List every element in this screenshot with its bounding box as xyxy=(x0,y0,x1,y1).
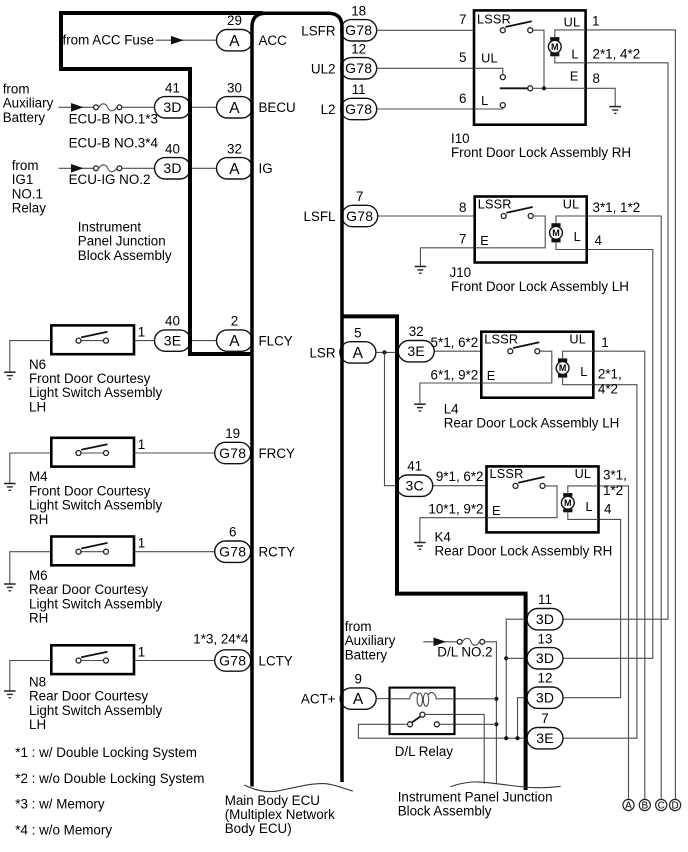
label I10 xyxy=(451,131,631,160)
D/L relay xyxy=(390,688,455,735)
svg-text:Rear Door Lock Assembly LH: Rear Door Lock Assembly LH xyxy=(444,416,620,431)
wire K4 E to ground xyxy=(420,518,487,543)
svg-text:N8: N8 xyxy=(29,674,46,689)
label L4 xyxy=(444,402,620,431)
svg-text:LSSR: LSSR xyxy=(478,197,512,211)
svg-text:5*1, 6*2: 5*1, 6*2 xyxy=(431,335,479,350)
svg-text:7: 7 xyxy=(459,12,466,27)
svg-text:FLCY: FLCY xyxy=(259,334,293,349)
svg-text:10*1, 9*2: 10*1, 9*2 xyxy=(428,502,483,517)
pin number pin 11 xyxy=(352,82,366,97)
svg-text:A: A xyxy=(353,691,364,708)
wire I10 UL pin1 to connector D xyxy=(586,30,676,799)
svg-text:*3 : w/ Memory: *3 : w/ Memory xyxy=(15,797,105,812)
svg-text:4*2: 4*2 xyxy=(598,382,618,397)
L4 pin labels right xyxy=(598,335,622,397)
svg-text:Battery: Battery xyxy=(345,647,388,662)
svg-text:(Multiplex Network: (Multiplex Network xyxy=(225,807,335,822)
svg-text:Light Switch Assembly: Light Switch Assembly xyxy=(29,498,163,513)
svg-text:A: A xyxy=(353,345,364,362)
svg-text:ECU-IG NO.2: ECU-IG NO.2 xyxy=(69,172,151,187)
pin number pin 41 xyxy=(165,80,180,95)
svg-text:Front Door Courtesy: Front Door Courtesy xyxy=(29,483,151,498)
svg-text:N6: N6 xyxy=(29,357,46,372)
off-page connector C xyxy=(656,799,667,811)
svg-text:LSSR: LSSR xyxy=(484,333,518,347)
svg-text:L2: L2 xyxy=(321,102,336,117)
svg-text:40: 40 xyxy=(165,314,180,329)
pin number pin 13 3D xyxy=(538,631,553,646)
label 1*3 24*4 xyxy=(193,632,249,647)
svg-text:9: 9 xyxy=(354,672,361,687)
label D/L Relay xyxy=(395,744,454,759)
L4 pin labels left xyxy=(431,335,479,383)
wire relay coil to feed xyxy=(455,698,497,700)
label Instrument Panel Junction Block Assembly (right) xyxy=(398,789,553,818)
pin number pin 40 FLCY xyxy=(165,314,180,329)
front door courtesy switch N6 xyxy=(51,325,134,354)
footnote *4 xyxy=(15,822,112,837)
connector G78 pin 12 (UL2) xyxy=(341,58,377,79)
svg-text:18: 18 xyxy=(351,3,366,18)
svg-text:D/L NO.2: D/L NO.2 xyxy=(437,644,492,659)
svg-text:29: 29 xyxy=(227,13,242,28)
connector A pin 30 (BECU) xyxy=(217,97,253,118)
svg-text:7: 7 xyxy=(459,231,466,246)
svg-text:3D: 3D xyxy=(163,99,181,115)
svg-text:3D: 3D xyxy=(536,611,554,627)
svg-text:3E: 3E xyxy=(164,333,182,349)
svg-text:G78: G78 xyxy=(345,60,372,76)
svg-text:UL: UL xyxy=(564,16,581,30)
svg-text:LCTY: LCTY xyxy=(259,654,293,669)
label M6 xyxy=(29,568,163,626)
wire 3C41 to K4 switch xyxy=(433,485,487,487)
svg-text:IG: IG xyxy=(259,161,273,176)
svg-text:Front Door Courtesy: Front Door Courtesy xyxy=(29,371,151,386)
pin number pin 18 xyxy=(351,3,366,18)
svg-text:Front Door Lock Assembly LH: Front Door Lock Assembly LH xyxy=(451,279,629,294)
svg-text:2*1,: 2*1, xyxy=(598,367,622,382)
svg-text:Light Switch Assembly: Light Switch Assembly xyxy=(29,385,163,400)
svg-text:1*3, 24*4: 1*3, 24*4 xyxy=(193,632,249,647)
Main Body ECU outline xyxy=(252,13,342,786)
svg-text:12: 12 xyxy=(351,41,366,56)
svg-text:LSSR: LSSR xyxy=(477,13,511,27)
pin number pin 12 3D xyxy=(538,671,553,686)
pin number pin 29 xyxy=(227,13,242,28)
wire 3D40 to pin 32 xyxy=(191,167,217,169)
svg-text:*2 : w/o Double Locking System: *2 : w/o Double Locking System xyxy=(15,771,204,786)
rear door courtesy switch M6 xyxy=(51,537,134,566)
connector G78 pin 11 (L2) xyxy=(341,98,377,119)
pin number pin 19 xyxy=(225,426,240,441)
label ECU-B NO.1*3 xyxy=(69,111,158,126)
svg-text:Instrument Panel Junction: Instrument Panel Junction xyxy=(398,789,553,804)
svg-text:Light Switch Assembly: Light Switch Assembly xyxy=(29,703,163,718)
svg-text:11: 11 xyxy=(538,592,552,607)
svg-text:LSFR: LSFR xyxy=(301,23,336,38)
Instrument Panel Junction Block Assembly outline (left) xyxy=(59,13,263,354)
svg-text:from: from xyxy=(345,619,372,634)
wire relay NC contact to 3E7 net xyxy=(358,724,525,738)
fuse ECU-B NO.1 with feed wire xyxy=(59,103,155,112)
wire L4 UL to connector B xyxy=(593,351,645,799)
off-page connector D xyxy=(670,799,681,811)
svg-text:4: 4 xyxy=(604,502,612,517)
off-page connector B xyxy=(639,799,650,811)
svg-text:Block Assembly: Block Assembly xyxy=(78,248,172,263)
svg-text:L: L xyxy=(585,500,592,514)
connector 3E pin 32 xyxy=(398,341,434,362)
ground K4 xyxy=(414,543,426,550)
svg-text:*4 : w/o Memory: *4 : w/o Memory xyxy=(15,822,112,837)
node 3D12 to 3E7 row xyxy=(515,736,519,740)
pin number pin 12 xyxy=(351,41,366,56)
svg-text:8: 8 xyxy=(593,71,600,86)
svg-text:9*1, 6*2: 9*1, 6*2 xyxy=(436,469,484,484)
svg-text:12: 12 xyxy=(538,671,553,686)
svg-text:3D: 3D xyxy=(163,160,181,176)
label from IG1 NO.1 Relay xyxy=(12,158,47,216)
rear door lock assembly RH K4 xyxy=(487,466,599,532)
svg-text:ACC: ACC xyxy=(259,33,288,48)
connector A pin 32 (IG) xyxy=(217,158,253,179)
svg-text:Rear Door Courtesy: Rear Door Courtesy xyxy=(29,689,148,704)
svg-text:G78: G78 xyxy=(345,22,372,38)
svg-text:UL: UL xyxy=(569,333,586,347)
connector 3D pin 13 xyxy=(527,648,563,669)
svg-text:32: 32 xyxy=(409,324,424,339)
wire D/L NO.2 to relay feed xyxy=(485,642,497,784)
svg-text:Battery: Battery xyxy=(3,110,46,125)
svg-text:from ACC Fuse: from ACC Fuse xyxy=(63,33,155,48)
svg-text:ECU-B NO.3*4: ECU-B NO.3*4 xyxy=(69,136,159,151)
svg-text:UL: UL xyxy=(563,197,580,211)
svg-text:3*1, 1*2: 3*1, 1*2 xyxy=(593,200,641,215)
svg-text:A: A xyxy=(229,161,240,178)
svg-text:1: 1 xyxy=(138,437,145,452)
svg-text:32: 32 xyxy=(227,141,242,156)
wire A9 to relay coil xyxy=(376,698,389,700)
J10 pin labels left xyxy=(459,200,466,247)
svg-text:Light Switch Assembly: Light Switch Assembly xyxy=(29,596,163,611)
wire K4 L to 3D12 xyxy=(561,519,620,697)
ground I10 xyxy=(609,107,621,114)
connector 3D pin 11 xyxy=(527,609,563,630)
svg-text:6: 6 xyxy=(459,91,466,106)
label ECU-IG NO.2 xyxy=(69,172,151,187)
svg-text:Block Assembly: Block Assembly xyxy=(398,803,492,818)
wire M6 to pin 6 xyxy=(134,551,217,553)
svg-text:L: L xyxy=(481,94,488,108)
I10 pin labels left xyxy=(459,12,466,106)
front door courtesy switch M4 xyxy=(51,438,134,467)
svg-text:3E: 3E xyxy=(407,343,425,359)
svg-text:1: 1 xyxy=(592,13,599,28)
svg-text:M: M xyxy=(551,42,559,52)
connector 3C pin 41 xyxy=(397,475,433,496)
svg-text:A: A xyxy=(625,801,632,812)
wire I10 L pin to 3D11 xyxy=(561,63,668,619)
wire G78-18 to I10 pin 7 xyxy=(377,29,474,31)
svg-text:Auxiliary: Auxiliary xyxy=(3,96,54,111)
svg-text:Body ECU): Body ECU) xyxy=(225,821,292,836)
svg-text:8: 8 xyxy=(459,200,466,215)
svg-text:L: L xyxy=(580,365,587,379)
svg-text:4: 4 xyxy=(595,233,603,248)
svg-text:G78: G78 xyxy=(345,101,372,117)
svg-text:5: 5 xyxy=(354,325,361,340)
wire N6 to 3E40 xyxy=(134,340,155,342)
label M4 xyxy=(29,469,163,527)
svg-text:13: 13 xyxy=(538,631,553,646)
ground L4 xyxy=(414,404,426,411)
svg-text:G78: G78 xyxy=(346,208,373,224)
node bus to 3E7 row xyxy=(504,736,508,740)
ground N8 xyxy=(4,691,16,698)
connector G78 pin 6 (RCTY) xyxy=(215,541,251,562)
svg-text:11: 11 xyxy=(352,82,366,97)
rear door lock assembly LH L4 xyxy=(481,332,593,398)
wire J10 E pin7 to ground xyxy=(420,248,474,267)
wire M4 to pin 19 xyxy=(134,452,217,454)
wire M4 to ground xyxy=(10,453,52,484)
svg-text:41: 41 xyxy=(165,80,180,95)
svg-text:LH: LH xyxy=(29,399,46,414)
svg-text:3D: 3D xyxy=(536,650,554,666)
wire 3D12 to 3E7 net xyxy=(518,698,526,739)
svg-text:Instrument: Instrument xyxy=(78,220,142,235)
svg-text:3E: 3E xyxy=(536,730,554,746)
svg-text:41: 41 xyxy=(407,459,422,474)
svg-text:G78: G78 xyxy=(219,544,246,560)
wire J10 L to 3D13 xyxy=(561,250,652,659)
svg-text:RH: RH xyxy=(29,611,48,626)
svg-text:19: 19 xyxy=(225,426,240,441)
svg-text:UL2: UL2 xyxy=(311,61,336,76)
wire relay NO contact to feed xyxy=(455,723,497,725)
I10 pin labels right xyxy=(592,13,640,85)
svg-text:UL: UL xyxy=(575,467,592,481)
svg-text:Panel Junction: Panel Junction xyxy=(78,234,166,249)
svg-text:IG1: IG1 xyxy=(12,172,34,187)
pin number pin 9 xyxy=(354,672,361,687)
svg-text:from: from xyxy=(12,158,39,173)
label ECU-B NO.3*4 xyxy=(69,136,159,151)
Main Body ECU pin labels xyxy=(259,23,336,706)
svg-text:30: 30 xyxy=(227,80,242,95)
pin 1 label N6 xyxy=(138,324,145,339)
svg-text:ECU-B NO.1*3: ECU-B NO.1*3 xyxy=(69,111,158,126)
wire LSR branch down to 3C41 xyxy=(385,352,398,485)
wire N6 to ground xyxy=(10,341,52,373)
connector 3E pin 40 xyxy=(155,330,191,351)
svg-text:LSSR: LSSR xyxy=(490,467,524,481)
pin number pin 7 LSFL xyxy=(356,189,363,204)
pin 1 label M4 xyxy=(138,437,145,452)
svg-text:J10: J10 xyxy=(450,265,472,280)
label K4 xyxy=(435,530,613,559)
label N8 xyxy=(29,674,163,732)
svg-text:BECU: BECU xyxy=(259,100,296,115)
pin number pin 5 xyxy=(354,325,361,340)
svg-text:M: M xyxy=(564,498,572,508)
pin number pin 32 xyxy=(227,141,242,156)
svg-text:G78: G78 xyxy=(219,652,246,668)
connector A pin 9 (ACT+) xyxy=(340,688,376,709)
pin number pin 2 xyxy=(231,314,238,329)
svg-text:3C: 3C xyxy=(406,478,424,494)
wire L4 E to ground xyxy=(420,383,481,404)
pin number pin 32 3E xyxy=(409,324,424,339)
label Instrument Panel Junction Block Assembly (left) xyxy=(78,220,172,263)
svg-text:6: 6 xyxy=(229,525,236,540)
svg-text:2: 2 xyxy=(231,314,238,329)
connector G78 LCTY xyxy=(215,650,251,671)
svg-text:M6: M6 xyxy=(29,568,48,583)
connector A pin 5 (LSR) xyxy=(340,342,376,363)
pin number pin 41 3C xyxy=(407,459,422,474)
pin number pin 11 3D xyxy=(538,592,552,607)
label from Auxiliary Battery (right) xyxy=(345,619,396,662)
wire G78-11 to I10 pin 6 xyxy=(377,108,474,110)
svg-text:7: 7 xyxy=(356,189,363,204)
svg-text:Auxiliary: Auxiliary xyxy=(345,633,396,648)
front door lock assembly RH I10 xyxy=(474,10,586,124)
wire L4 L to 3E7 xyxy=(561,385,637,739)
svg-text:B: B xyxy=(641,801,648,812)
wire 3D41 to pin 30 xyxy=(191,106,217,108)
svg-text:RH: RH xyxy=(29,512,48,527)
wire N8 to LCTY pin xyxy=(134,660,217,662)
svg-text:E: E xyxy=(492,504,500,518)
svg-text:L: L xyxy=(571,48,578,62)
svg-text:G78: G78 xyxy=(219,445,246,461)
svg-text:6*1, 9*2: 6*1, 9*2 xyxy=(431,368,479,383)
label J10 xyxy=(450,265,629,294)
svg-text:LH: LH xyxy=(29,717,46,732)
svg-text:E: E xyxy=(487,369,495,383)
pin 1 label M6 xyxy=(138,536,145,551)
footnote *2 xyxy=(15,771,204,786)
label D/L NO.2 xyxy=(437,644,492,659)
svg-text:RCTY: RCTY xyxy=(259,545,296,560)
svg-text:M: M xyxy=(552,228,560,238)
fuse D/L NO.2 with feed wire xyxy=(423,638,484,647)
connector 3E pin 7 xyxy=(527,728,563,749)
connector G78 pin 18 (LSFR) xyxy=(341,20,377,41)
svg-text:A: A xyxy=(229,100,240,117)
node LSR branch xyxy=(382,350,386,354)
wire K4 UL to connector A xyxy=(599,486,629,799)
svg-text:ACT+: ACT+ xyxy=(301,692,336,707)
wire N8 to ground xyxy=(10,661,52,692)
wire G78-7 to J10 pin 8 xyxy=(377,215,475,217)
svg-text:*1 : w/ Double Locking System: *1 : w/ Double Locking System xyxy=(15,745,197,760)
svg-text:1: 1 xyxy=(601,335,608,350)
connector A pin 29 (ACC) xyxy=(217,30,253,51)
ground N6 xyxy=(4,372,16,379)
pin 1 label N8 xyxy=(138,644,145,659)
ground J10 xyxy=(415,267,427,274)
svg-text:A: A xyxy=(229,33,240,50)
wire I10 E pin8 to ground xyxy=(586,88,616,106)
svg-text:NO.1: NO.1 xyxy=(12,186,43,201)
Instrument Panel Junction Block Assembly outline (right) xyxy=(342,316,526,790)
svg-text:LSR: LSR xyxy=(309,345,335,360)
node relay contact feed xyxy=(494,722,498,726)
wire 3D11 to bus xyxy=(506,619,526,738)
svg-text:I10: I10 xyxy=(451,131,470,146)
Instrument Panel Junction Block torn edge xyxy=(451,782,561,788)
svg-text:3D: 3D xyxy=(536,690,554,706)
rear door courtesy switch N8 xyxy=(51,645,134,674)
pin number pin 7 3E xyxy=(541,711,548,726)
svg-text:2*1, 4*2: 2*1, 4*2 xyxy=(593,46,641,61)
connector 3D pin 41 xyxy=(155,97,191,118)
label N6 xyxy=(29,357,163,415)
svg-text:A: A xyxy=(229,333,240,350)
svg-text:7: 7 xyxy=(541,711,548,726)
wire 3E40 to pin 2 xyxy=(191,340,217,342)
footnote *1 xyxy=(15,745,197,760)
label from Auxiliary Battery xyxy=(3,82,54,125)
ground M4 xyxy=(4,484,16,491)
wire 3E32 to L4 switch xyxy=(434,350,481,352)
footnote *3 xyxy=(15,797,105,812)
svg-text:LSFL: LSFL xyxy=(303,209,335,224)
pin number pin 40 xyxy=(165,141,180,156)
svg-text:K4: K4 xyxy=(435,530,452,545)
svg-text:L4: L4 xyxy=(444,402,459,417)
connector A pin 2 (FLCY) xyxy=(217,330,253,351)
svg-text:40: 40 xyxy=(165,141,180,156)
svg-text:D/L Relay: D/L Relay xyxy=(395,744,454,759)
svg-text:Front Door Lock Assembly RH: Front Door Lock Assembly RH xyxy=(451,145,631,160)
svg-text:C: C xyxy=(658,801,665,812)
ground M6 xyxy=(4,584,16,591)
svg-text:M4: M4 xyxy=(29,469,48,484)
off-page connector A xyxy=(623,799,634,811)
svg-text:1: 1 xyxy=(138,644,145,659)
front door lock assembly LH J10 xyxy=(475,197,587,263)
connector 3D pin 40 xyxy=(155,158,191,179)
svg-text:Rear Door Courtesy: Rear Door Courtesy xyxy=(29,582,148,597)
K4 pin labels left xyxy=(428,469,483,516)
connector G78 pin 19 (FRCY) xyxy=(215,442,251,463)
svg-text:E: E xyxy=(570,69,578,83)
wire relay common output xyxy=(455,714,485,783)
svg-text:1: 1 xyxy=(138,536,145,551)
J10 pin labels right xyxy=(593,200,641,248)
svg-text:D: D xyxy=(671,801,678,812)
svg-text:3*1,: 3*1, xyxy=(603,468,627,483)
connector G78 pin 7 (LSFL) xyxy=(342,205,378,226)
svg-text:FRCY: FRCY xyxy=(259,446,296,461)
node 3D13 junction xyxy=(504,656,508,660)
wire 3D13 to bus xyxy=(506,657,526,659)
label Main Body ECU xyxy=(225,793,335,836)
pin number pin 30 xyxy=(227,80,242,95)
fuse ECU-IG NO.2 with feed wire xyxy=(59,164,155,173)
label from ACC Fuse xyxy=(63,33,155,48)
wire G78-12 to I10 pin 5 xyxy=(377,67,474,69)
svg-text:from: from xyxy=(3,82,30,97)
Main Body ECU torn edge xyxy=(244,784,353,792)
svg-text:Main Body ECU: Main Body ECU xyxy=(225,793,320,808)
svg-text:M: M xyxy=(559,363,567,373)
